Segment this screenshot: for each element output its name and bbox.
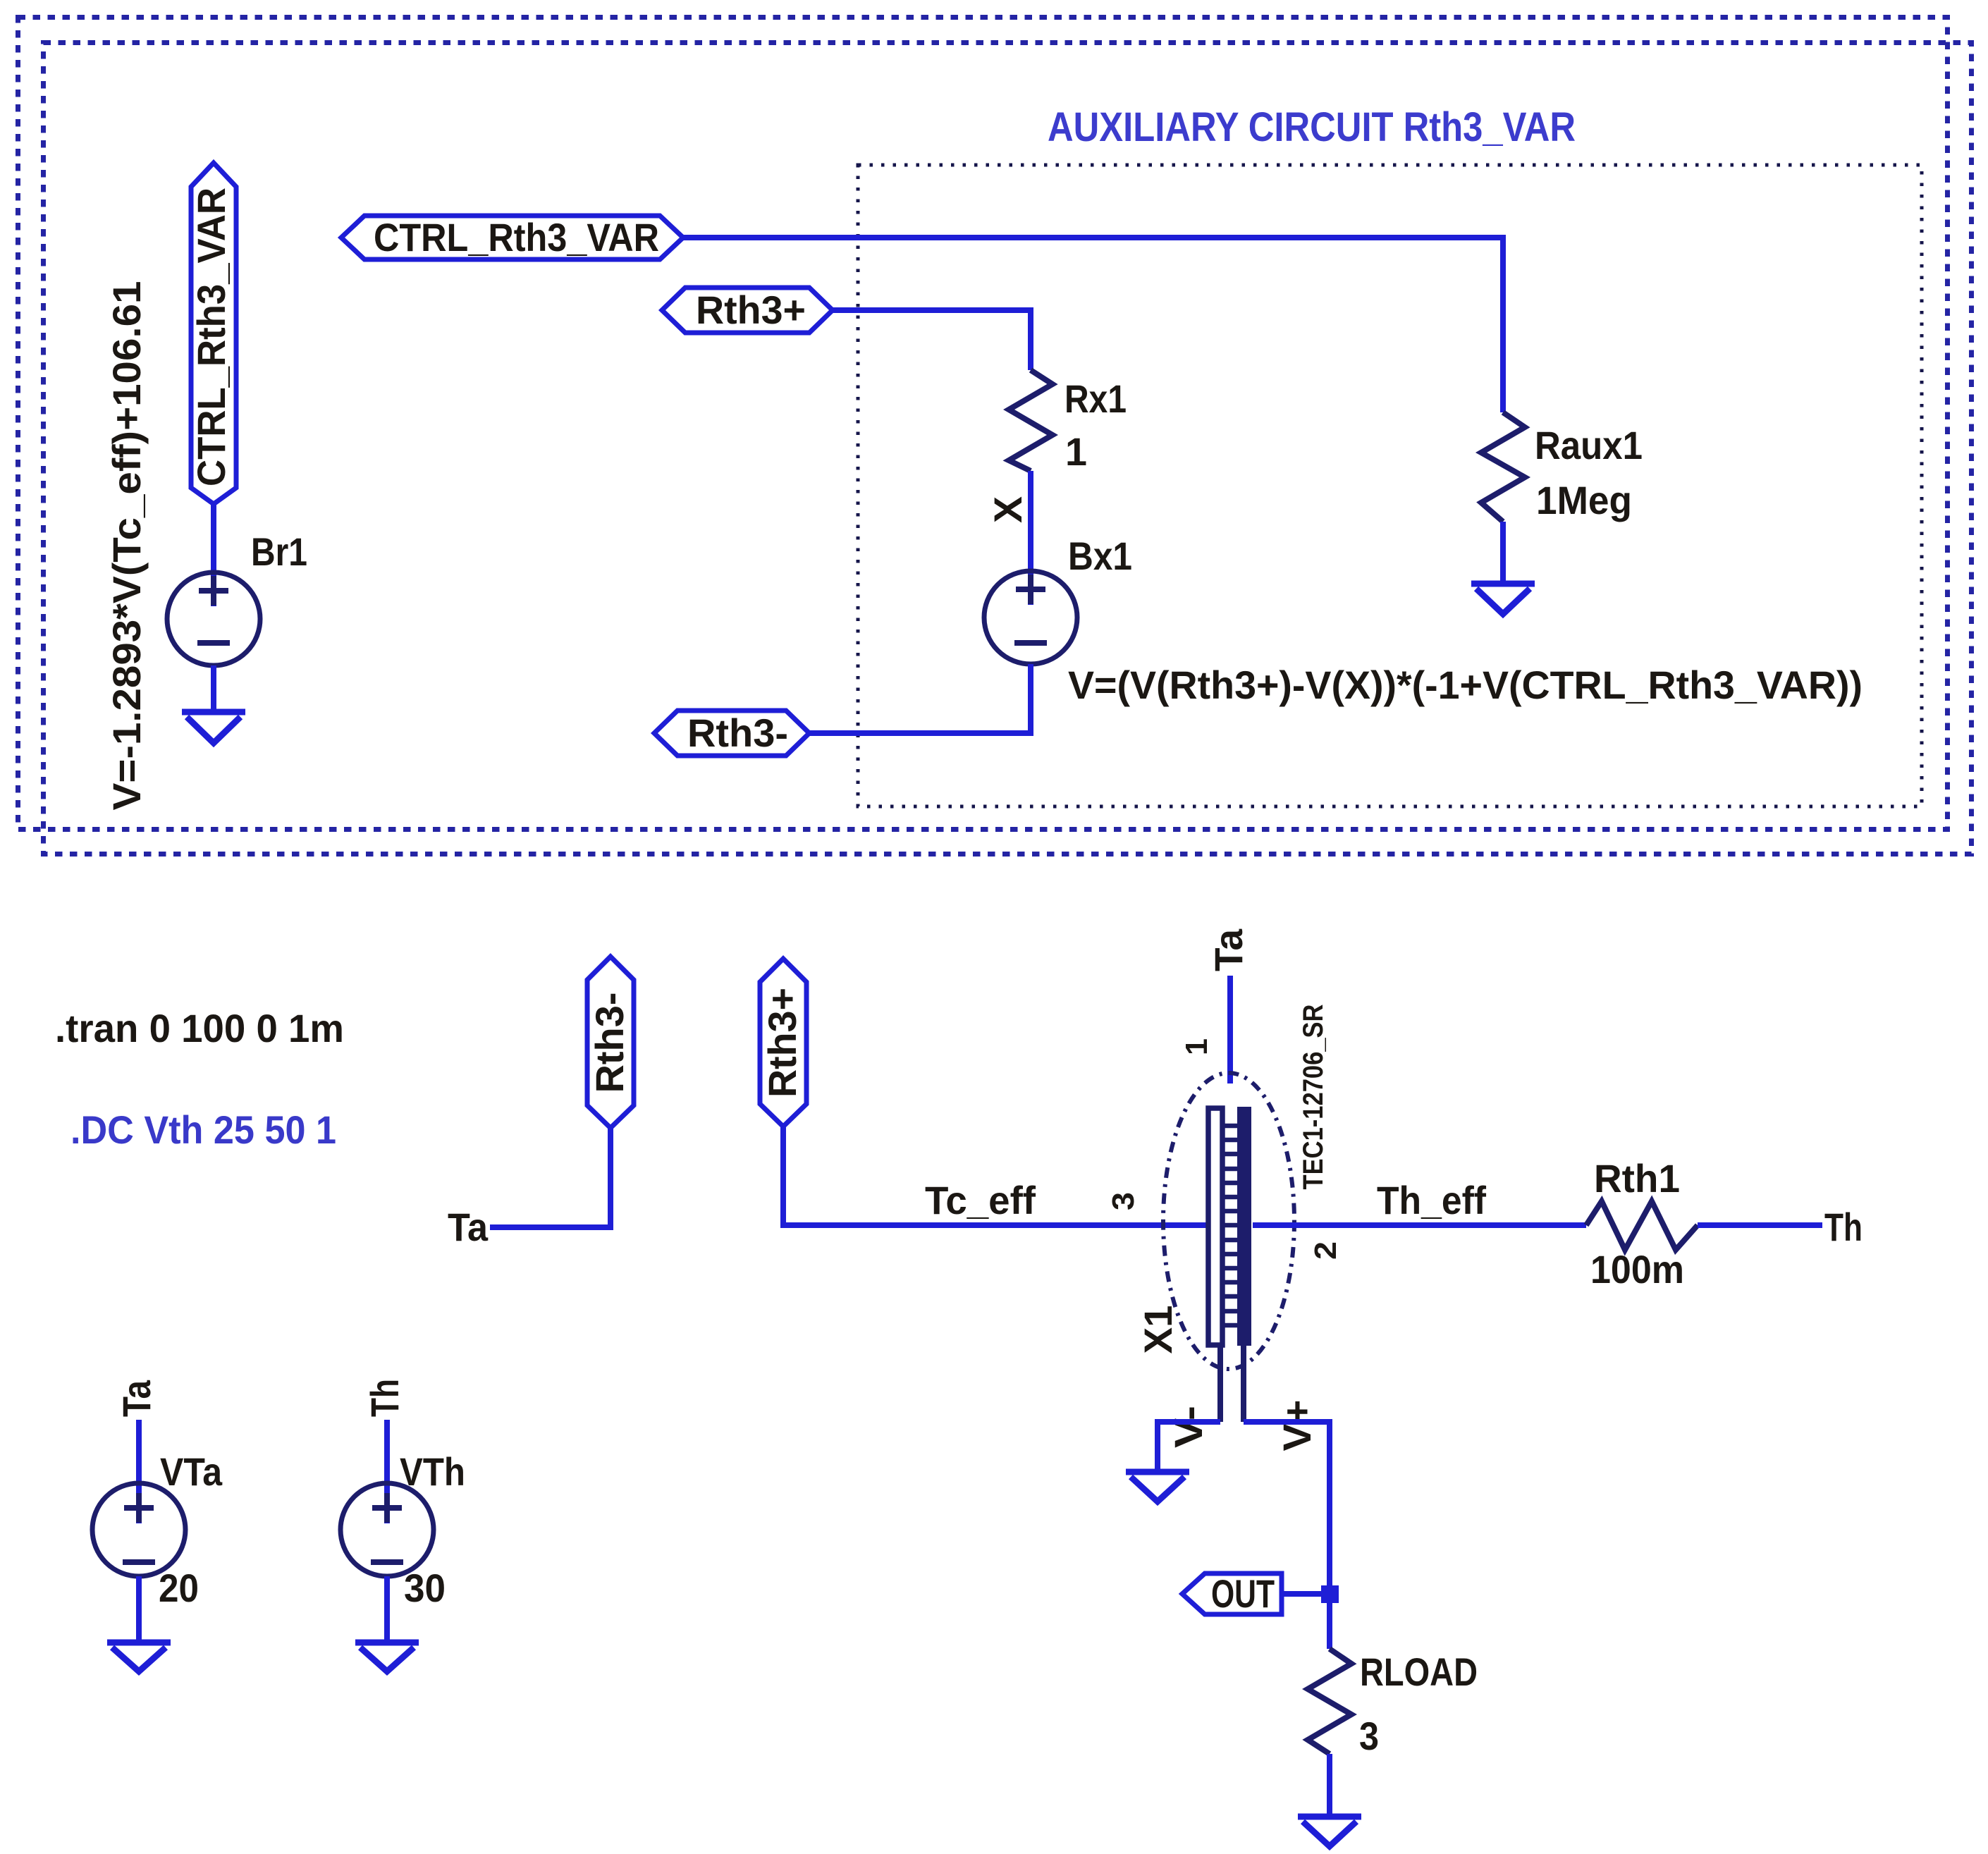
svg-text:Th_eff: Th_eff (1377, 1178, 1486, 1222)
svg-text:Rx1: Rx1 (1064, 376, 1127, 421)
wire Br1 to ground (211, 665, 216, 711)
svg-text:VTa: VTa (160, 1449, 223, 1494)
voltage source VTh (340, 1483, 434, 1576)
wire CTRL net to Raux1 (683, 238, 1503, 412)
flag CTRL_Rth3_VAR vertical (189, 163, 236, 504)
svg-text:Rth3-: Rth3- (587, 993, 632, 1093)
svg-text:CTRL_Rth3_VAR: CTRL_Rth3_VAR (374, 215, 659, 259)
svg-text:Rth3+: Rth3+ (696, 288, 806, 332)
svg-text:AUXILIARY CIRCUIT Rth3_VAR: AUXILIARY CIRCUIT Rth3_VAR (1048, 104, 1576, 150)
resistor Rx1 (1009, 370, 1053, 471)
ground TEC (1126, 1472, 1189, 1502)
TEC right plate (1237, 1107, 1251, 1346)
svg-text:V=(V(Rth3+)-V(X))*(-1+V(CTRL_R: V=(V(Rth3+)-V(X))*(-1+V(CTRL_Rth3_VAR)) (1068, 663, 1863, 707)
wire VTh to ground (384, 1576, 390, 1643)
wire V+ to OUT junction (1244, 1422, 1330, 1649)
wire Rth1 to Th (1698, 1222, 1822, 1228)
svg-text:1: 1 (1179, 1038, 1214, 1055)
svg-text:.tran 0 100 0 1m: .tran 0 100 0 1m (55, 1006, 344, 1050)
svg-text:Br1: Br1 (251, 529, 307, 574)
wire VTa to ground (136, 1576, 142, 1643)
svg-text:3: 3 (1359, 1714, 1379, 1758)
wire Ta to VTa (136, 1420, 142, 1523)
svg-text:Tc_eff: Tc_eff (925, 1178, 1036, 1222)
svg-text:Ta: Ta (448, 1205, 489, 1249)
wire Rth3+ to TEC pin 3 (783, 1126, 1208, 1225)
ground RLOAD (1298, 1817, 1361, 1846)
TEC rungs (1222, 1126, 1237, 1325)
svg-text:TEC1-12706_SR: TEC1-12706_SR (1298, 1004, 1329, 1189)
wire Th to VTh (384, 1420, 390, 1523)
svg-text:X: X (986, 496, 1030, 523)
wire Ta to TEC pin 1 (1227, 976, 1233, 1083)
wire TEC pin 2 to Rth1 (1253, 1222, 1586, 1228)
wire Ta to Rth3- (490, 1128, 610, 1227)
svg-text:Ta: Ta (114, 1380, 159, 1417)
svg-text:Rth1: Rth1 (1594, 1156, 1680, 1201)
wire RLOAD to ground (1327, 1754, 1332, 1816)
svg-text:CTRL_Rth3_VAR: CTRL_Rth3_VAR (189, 188, 233, 486)
svg-text:X1: X1 (1136, 1306, 1180, 1354)
svg-text:Rth3-: Rth3- (687, 711, 788, 755)
ground Raux1 (1471, 584, 1535, 614)
wire OUT to junction (1282, 1591, 1330, 1597)
svg-text:2: 2 (1308, 1241, 1343, 1260)
wire Raux1 to ground (1500, 522, 1506, 582)
svg-text:Th: Th (1824, 1205, 1863, 1249)
junction OUT (1321, 1585, 1339, 1603)
svg-text:1: 1 (1065, 429, 1087, 474)
svg-text:20: 20 (159, 1566, 199, 1610)
svg-text:Bx1: Bx1 (1068, 534, 1132, 578)
svg-text:1Meg: 1Meg (1536, 478, 1632, 522)
svg-text:100m: 100m (1590, 1247, 1684, 1291)
wire flag to Br1 (211, 504, 216, 606)
svg-text:Ta: Ta (1206, 928, 1251, 971)
svg-text:.DC Vth 25 50 1: .DC Vth 25 50 1 (70, 1107, 336, 1152)
wire Bx1 to Rth3- (809, 664, 1031, 733)
ground VTa (107, 1643, 171, 1671)
flag Rth3+ vertical lower (760, 959, 806, 1126)
svg-text:Rth3+: Rth3+ (760, 988, 804, 1098)
svg-text:3: 3 (1106, 1192, 1141, 1210)
svg-text:V-: V- (1166, 1406, 1210, 1448)
voltage source VTa (92, 1483, 185, 1576)
svg-text:V=-1.2893*V(Tc_eff)+106.61: V=-1.2893*V(Tc_eff)+106.61 (104, 281, 149, 810)
flag Rth3+ horizontal (662, 288, 833, 333)
bv source Br1 (167, 572, 260, 665)
TEC X1 ellipse (1163, 1073, 1294, 1369)
resistor Rth1 (1586, 1201, 1698, 1250)
flag Rth3- horizontal (654, 711, 809, 756)
wire V- to ground (1158, 1422, 1220, 1471)
flag Rth3- vertical lower (587, 957, 634, 1128)
TEC left plate (1208, 1108, 1222, 1345)
ground Br1 (182, 712, 245, 743)
svg-text:Raux1: Raux1 (1535, 423, 1643, 467)
svg-text:VTh: VTh (400, 1449, 465, 1494)
outer dashed border (18, 18, 1948, 830)
flag OUT (1182, 1571, 1282, 1616)
inner dashed border (44, 43, 1972, 854)
resistor Raux1 (1481, 412, 1525, 522)
wire Rx1 to Bx1 node X (1028, 471, 1033, 605)
dotted box auxiliary circuit (858, 165, 1922, 806)
TEC bottom leads (1217, 1345, 1223, 1422)
svg-text:30: 30 (404, 1566, 446, 1610)
wire Rth3+ to Rx1 (833, 310, 1031, 370)
bv source Bx1 (984, 571, 1077, 664)
resistor RLOAD (1308, 1649, 1351, 1754)
svg-text:V+: V+ (1275, 1400, 1319, 1451)
svg-text:Th: Th (362, 1379, 407, 1417)
svg-text:RLOAD: RLOAD (1360, 1650, 1478, 1694)
flag CTRL_Rth3_VAR horizontal (341, 215, 683, 259)
ground VTh (355, 1643, 419, 1671)
svg-text:OUT: OUT (1211, 1571, 1275, 1616)
